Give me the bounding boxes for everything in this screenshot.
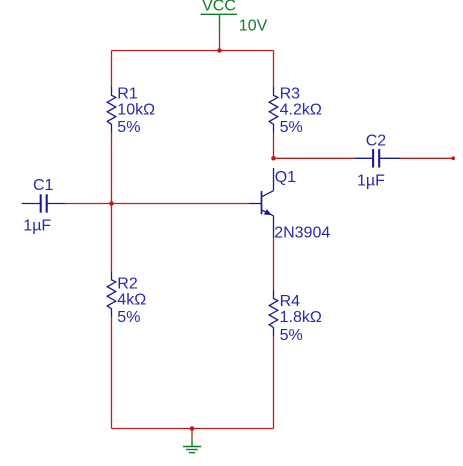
svg-text:5%: 5% — [117, 309, 140, 326]
svg-text:R2: R2 — [117, 275, 138, 292]
svg-text:1.8kΩ: 1.8kΩ — [280, 309, 322, 326]
svg-text:4.2kΩ: 4.2kΩ — [280, 102, 322, 119]
svg-text:R4: R4 — [280, 293, 301, 310]
svg-text:5%: 5% — [280, 119, 303, 136]
svg-text:1µF: 1µF — [357, 172, 385, 189]
svg-text:R3: R3 — [280, 85, 301, 102]
svg-text:5%: 5% — [117, 119, 140, 136]
svg-text:C1: C1 — [33, 177, 54, 194]
svg-text:2N3904: 2N3904 — [274, 225, 330, 242]
svg-text:10V: 10V — [239, 18, 268, 35]
svg-text:Q1: Q1 — [275, 169, 296, 186]
svg-text:4kΩ: 4kΩ — [117, 291, 146, 308]
svg-text:R1: R1 — [117, 85, 138, 102]
svg-text:10kΩ: 10kΩ — [117, 102, 155, 119]
svg-text:C2: C2 — [366, 132, 387, 149]
svg-text:5%: 5% — [280, 327, 303, 344]
svg-text:VCC: VCC — [202, 0, 236, 15]
svg-text:1µF: 1µF — [23, 217, 51, 234]
